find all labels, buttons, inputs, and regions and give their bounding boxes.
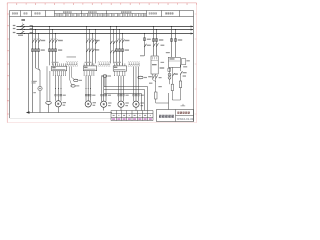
contactor KM contacts branch A <box>32 39 45 43</box>
branch A phase wires <box>32 26 39 113</box>
wire labels above box3 <box>114 62 121 63</box>
drawing frame border <box>10 11 194 122</box>
motor M1 <box>55 101 66 113</box>
terminal table middle row marks <box>113 115 151 116</box>
cable marker oval CD4 <box>138 76 147 79</box>
wire labels U11 V11 W11 <box>30 25 33 33</box>
motor M4 <box>118 101 129 110</box>
contactor KM3 reversing contacts <box>86 48 99 52</box>
cable marker oval CD1 <box>46 101 52 112</box>
motor M3 wires <box>101 75 111 101</box>
terminal box XT3 <box>113 63 126 76</box>
control transformer feed wires <box>153 26 164 56</box>
wire labels above box2 <box>85 62 92 63</box>
PE riser wire <box>28 34 30 113</box>
header function table <box>10 11 194 17</box>
misc control labels <box>149 45 190 88</box>
pump motor M6 <box>33 86 42 112</box>
contactor KM4 contacts <box>116 39 129 43</box>
wire number labels above box1 <box>52 62 59 63</box>
branch B phase wires <box>49 26 56 65</box>
rectifier box VC <box>168 57 180 67</box>
fuse FU branch A <box>32 49 45 52</box>
three-phase bus lines L1 L2 L3 <box>17 27 194 34</box>
motor M3 <box>101 101 112 110</box>
cable marker oval CD3 <box>103 75 111 87</box>
fuse row branch B <box>49 49 63 52</box>
terminal strip table <box>111 111 153 121</box>
sheet red border frame <box>7 3 196 123</box>
relay coil KA <box>170 84 174 100</box>
transformer TC box <box>151 56 164 74</box>
bus phase labels <box>13 25 16 33</box>
contactor coil KM <box>155 92 157 103</box>
connector X3 plug row <box>128 62 139 67</box>
red zone tick marks top edge <box>7 3 196 5</box>
wire to title block <box>156 93 169 110</box>
header group cells with sub-rows <box>55 11 147 16</box>
title block <box>157 110 194 122</box>
header cell text labels <box>12 13 173 15</box>
motor M5 wires <box>133 67 144 102</box>
routed control wires horizontal run <box>104 87 148 111</box>
main switch QS1 <box>18 19 25 36</box>
terminal box XT1 <box>52 63 67 76</box>
motor M2 wires <box>85 75 95 100</box>
terminal table magenta codes <box>112 118 152 120</box>
branch C phase wires <box>86 26 93 65</box>
branch D phase wires <box>116 26 123 65</box>
motor M5 <box>133 101 144 110</box>
control rung 1 <box>148 74 157 92</box>
aux tap wire <box>140 33 151 56</box>
control rung 3 <box>180 65 187 82</box>
bus outgoing arrows <box>191 26 194 35</box>
svg-text:DW10-01-01: DW10-01-01 <box>177 117 194 121</box>
coil HL branch <box>172 81 181 100</box>
small mark above title block <box>181 104 186 106</box>
terminal box XT2 <box>83 63 96 75</box>
cable bundle wires to plug <box>47 66 50 101</box>
contactor KM1 contacts <box>49 39 63 43</box>
connector X1 plug row <box>66 56 77 66</box>
drawing number <box>177 117 194 121</box>
pump motor M6 labels <box>32 81 37 84</box>
aux box <box>181 59 185 65</box>
red zone tick marks left and right edges <box>7 14 196 114</box>
second feed pair <box>171 26 183 57</box>
title text dian qi yuan li tu <box>159 115 174 118</box>
cable marker ovals CD2 CD3 <box>70 67 83 88</box>
motor M2 <box>85 101 96 107</box>
motor M4 wires <box>118 76 129 102</box>
control rung 2 with lamps <box>168 67 178 84</box>
wire bend into pump motor <box>36 68 41 87</box>
fuse row branch D <box>116 49 129 52</box>
motor M1 wires <box>55 76 66 101</box>
connector X2 plug row <box>98 62 110 67</box>
contactor KM2 contacts <box>86 39 100 43</box>
feed wires pair <box>110 26 115 63</box>
PE earth bottom line <box>26 111 112 113</box>
tap wire with contact <box>95 29 97 63</box>
project name text <box>177 112 189 114</box>
